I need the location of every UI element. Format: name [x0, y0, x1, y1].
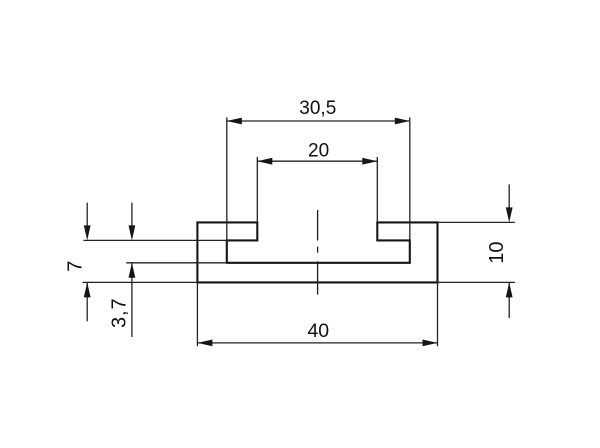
ext: top edge to right (for 10 top) — [438, 221, 515, 223]
ext: undercut right wall up (for 30,5) — [409, 117, 411, 240]
svg-text:20: 20 — [308, 140, 329, 161]
ext: slot wall right up (for 20) — [376, 157, 378, 222]
dimension 20 — [257, 160, 377, 162]
profile outline (T-slot cross-section) — [197, 222, 437, 282]
svg-text:40: 40 — [307, 320, 329, 342]
ext: bottom edge to right (for 10 bottom) — [438, 281, 515, 283]
ext: slot floor to left (for 3,7 bottom) — [126, 262, 227, 264]
svg-text:7: 7 — [65, 261, 87, 272]
dimension 7 (left, arrows outside) — [86, 203, 88, 322]
ext: slot wall left up (for 20) — [256, 157, 258, 222]
dimension 30,5 — [227, 120, 410, 122]
ext: bottom edge to left (for 7 bottom) — [83, 281, 198, 283]
extension lines — [83, 117, 515, 346]
dimension 3,7 (left inner, arrows outside) — [131, 203, 133, 337]
ext: left edge down (for 40) — [196, 282, 198, 346]
ext: right edge down (for 40) — [437, 282, 439, 346]
ext: undercut left wall up (for 30,5) — [226, 117, 228, 240]
ext: undercut ceiling to left (for 7 / 3,7 top) — [83, 239, 226, 241]
dimension 10 (right, arrows outside) — [508, 184, 510, 318]
svg-text:30,5: 30,5 — [299, 98, 336, 119]
dimension 40 — [197, 342, 437, 344]
svg-text:3,7: 3,7 — [109, 297, 131, 328]
svg-text:10: 10 — [486, 241, 508, 263]
centreline (dashed vertical axis) — [317, 210, 319, 295]
